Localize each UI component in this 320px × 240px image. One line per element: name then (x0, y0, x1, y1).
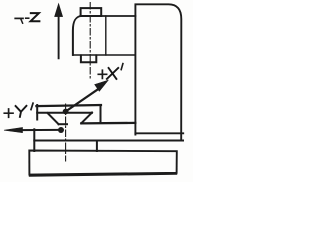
head inner vertical line (105, 16, 107, 55)
letter X of +X' label (107, 68, 118, 79)
column bottom ledge (34, 140, 183, 142)
X' axis arrow line (66, 88, 100, 111)
node dot on saddle (Y' origin) (58, 127, 64, 133)
plus sign of +X' label (98, 70, 106, 78)
table slot shelf line (37, 112, 92, 114)
prime mark of Y' (31, 103, 33, 109)
knee left edge (33, 129, 35, 151)
left T-slot bottom bar (59, 123, 67, 125)
label mark before Z (bar with tail) (15, 17, 23, 19)
motor cap on head (81, 8, 102, 16)
base outline (29, 151, 177, 175)
table centerline (dash-dot, vertical through table/knee/base) (65, 104, 67, 161)
table right edge (100, 105, 102, 123)
column bottom line (135, 132, 183, 134)
node dot on table (X' origin) (63, 109, 69, 115)
head bottom edge (73, 54, 135, 56)
right T-slot diagonal (81, 113, 92, 124)
table top edge (36, 105, 101, 106)
knee right edge (96, 141, 98, 152)
spindle centerline (dash-dot, vertical through head) (89, 3, 91, 81)
minus sign of -Z label (26, 17, 29, 19)
column outline (left edge, top, rounded corner, right edge) (135, 4, 181, 140)
prime mark of X' (121, 64, 123, 70)
base bottom thick line (30, 174, 176, 176)
Y' axis arrow line (18, 129, 61, 131)
plus sign of +Y' label (4, 109, 13, 117)
Z axis arrowhead (55, 4, 63, 17)
ledge from table to column (right slot bottom continued) (81, 122, 135, 125)
quill box under head (81, 55, 96, 62)
X' axis arrowhead (95, 80, 109, 91)
head left edge (curved shoulder) (73, 16, 81, 55)
table left edge (36, 105, 38, 120)
left T-slot diagonal (48, 113, 59, 124)
letter Y of +Y' label (16, 106, 27, 117)
head top edge (81, 15, 136, 17)
Y' axis arrowhead (4, 128, 23, 133)
Z axis arrow shaft (58, 10, 60, 58)
letter Z of -Z label (31, 13, 40, 21)
